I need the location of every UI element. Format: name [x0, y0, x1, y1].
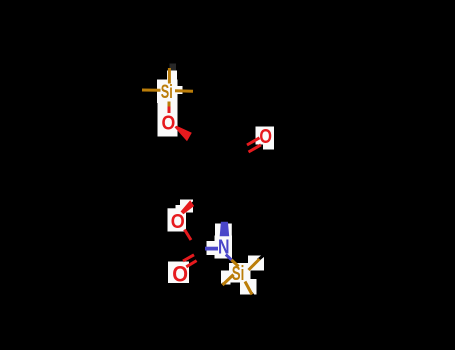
label halo box: O1 ester oxygen: [158, 103, 178, 137]
silicon Si2 bond up-right ethyl (orange half): [249, 259, 260, 270]
bond Si2-C tBu black tip over bottom-mid box: [252, 293, 255, 297]
bond O3-C2 red half: [185, 230, 192, 241]
bond N1-Si2 orange half: [232, 260, 239, 267]
silicon Si2 bond down tBu (orange half): [245, 282, 252, 295]
bond Si2-C ethyl black half over top-right box: [258, 255, 264, 260]
blue wedge black upper part over N1 top strip: [221, 217, 228, 224]
bond C2-N1 blue half: [205, 247, 218, 251]
label halo box: O4 carbonyl oxygen: [168, 262, 189, 284]
bond N1-Si2 blue half: [226, 255, 233, 262]
bond Si2-C methyl black tip over left-mid box: [222, 284, 224, 286]
silicon Si1 bond left methyl (orange half): [142, 89, 161, 92]
node C quaternary tBu junction (dark AA blob): [170, 64, 177, 72]
silicon Si1 bond up to tBu (orange half): [168, 68, 171, 84]
label halo box: O2 ketone oxygen main: [256, 127, 275, 145]
label halo box: N1 top strip: [215, 224, 232, 237]
label halo box: Si1 main: [157, 80, 178, 104]
bond O1-Si1 red half: [168, 107, 171, 114]
label halo box: O3 ring oxygen main: [168, 208, 187, 231]
svg-text:O: O: [172, 262, 188, 287]
label halo box: Si2 main: [229, 263, 251, 283]
svg-text:Si: Si: [232, 263, 245, 285]
svg-text:O: O: [162, 112, 176, 135]
svg-text:O: O: [259, 126, 272, 148]
label halo box: Si1 right stub: [177, 86, 183, 94]
bond N1-C3a bold wedge blue half: [220, 222, 230, 237]
label halo box: N1 main: [215, 236, 233, 259]
svg-text:O: O: [171, 211, 185, 233]
label halo box: Si2 bottom-mid: [240, 279, 257, 295]
bond O1-C6 bold wedge red half: [175, 126, 192, 142]
silicon Si1 bond down to O1 (orange half): [168, 102, 171, 108]
silicon Si1 bond right methyl (orange half): [175, 89, 193, 92]
bond C5=O2 ketone double bond red halves: [247, 138, 260, 145]
label halo box: N1 left strip: [207, 241, 216, 255]
label halo box: Si2 left-mid: [221, 271, 231, 285]
bond O3-C7a bold wedge red half: [181, 200, 195, 214]
label halo box: Si2 top-right: [248, 256, 264, 271]
label halo box: O3 ring oxygen upper patch: [180, 200, 193, 213]
svg-text:Si: Si: [161, 81, 173, 103]
bond C2=O4 carbonyl double bond red halves: [183, 255, 194, 261]
bond O3-C7a wedge black half over halo: [192, 200, 197, 204]
label halo box: Si1 up-bond strip: [167, 71, 177, 82]
label halo box: O2 ketone oxygen lower-right: [263, 143, 274, 150]
silicon Si2 bond left-down methyl (orange half): [223, 275, 234, 286]
